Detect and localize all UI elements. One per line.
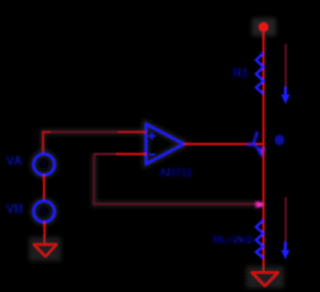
resistor RL — [256, 220, 264, 258]
svg-text:VB: VB — [6, 202, 23, 216]
source VB — [34, 201, 55, 222]
current arrow i1 — [281, 44, 290, 104]
ground left — [29, 237, 61, 261]
resistor R1 — [256, 53, 264, 94]
wire noninverting input — [43, 132, 146, 155]
svg-text:VA: VA — [6, 154, 22, 168]
wire op-amp output — [184, 141, 264, 147]
ground right — [246, 266, 284, 288]
svg-text:R1: R1 — [233, 66, 249, 80]
svg-text:AD711: AD711 — [159, 167, 193, 179]
current arrow iL — [281, 197, 290, 260]
source VA — [34, 154, 55, 175]
wire VB to ground — [43, 222, 45, 244]
wire terminal to output junction — [261, 31, 267, 144]
svg-text:RL=2kΩ: RL=2kΩ — [213, 234, 253, 246]
node feedback junction arrow — [256, 201, 264, 209]
node VO output terminal — [252, 18, 276, 36]
node output junction arrow — [247, 132, 267, 158]
label io — [275, 135, 285, 145]
wire junction to ground — [261, 144, 267, 272]
wire feedback to inverting input — [94, 154, 256, 204]
wire between sources — [43, 175, 45, 201]
op-amp U1 — [146, 124, 184, 164]
